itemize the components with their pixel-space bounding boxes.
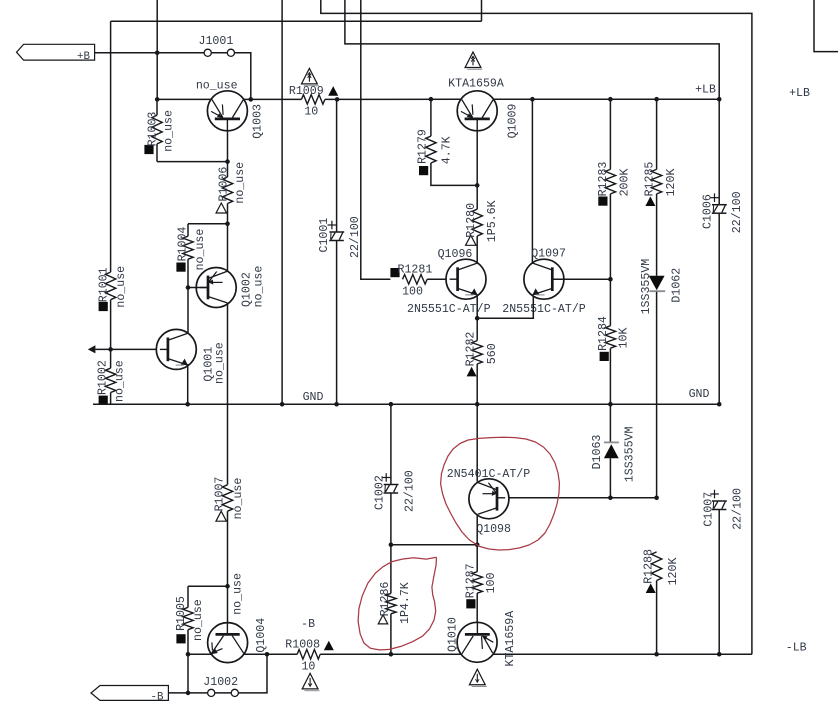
svg-text:R1283: R1283 bbox=[597, 162, 610, 197]
wire Q1098 collector bbox=[476, 404, 478, 481]
wire J1002 to node bbox=[238, 654, 267, 693]
wire Q1098 base net bbox=[497, 496, 659, 501]
svg-text:R1004: R1004 bbox=[177, 227, 190, 262]
resistor R1009 bbox=[289, 68, 338, 118]
svg-text:100: 100 bbox=[402, 285, 423, 298]
wire R1007 to Q1004 bbox=[225, 584, 230, 635]
node +LB label inner bbox=[695, 83, 716, 96]
svg-text:no_use: no_use bbox=[214, 342, 227, 384]
svg-text:GND: GND bbox=[303, 391, 324, 404]
jumper J1002 bbox=[203, 676, 238, 697]
svg-text:1SS355VM: 1SS355VM bbox=[623, 426, 636, 482]
wire Q1098 emitter bbox=[475, 515, 480, 572]
wire R1003 to Q1003 emitter bbox=[157, 159, 230, 164]
svg-text:R1003: R1003 bbox=[147, 112, 160, 147]
wire -LB rail bbox=[493, 652, 752, 657]
node +LB label outer bbox=[789, 87, 810, 100]
svg-text:no_use: no_use bbox=[114, 360, 127, 402]
svg-text:R1279: R1279 bbox=[416, 129, 429, 164]
diode D1062 bbox=[640, 259, 683, 315]
svg-text:no_use: no_use bbox=[232, 478, 245, 520]
svg-text:10K: 10K bbox=[617, 327, 630, 348]
wire D1062 to node bbox=[656, 292, 658, 498]
wire Q1097 base to node bbox=[552, 277, 612, 282]
label no_use Q1004 bbox=[231, 573, 244, 615]
svg-text:KTA1659A: KTA1659A bbox=[448, 77, 504, 90]
svg-text:C1007: C1007 bbox=[703, 492, 716, 527]
wire top-right corner bbox=[814, 0, 838, 52]
wire border vertical x282 bbox=[281, 0, 283, 404]
svg-text:-B: -B bbox=[151, 691, 164, 703]
resistor R1284 bbox=[597, 279, 630, 404]
wire Q1004 chord right bbox=[244, 652, 298, 657]
resistor R1279 bbox=[416, 99, 477, 185]
wire -LB feed top bbox=[321, 0, 752, 654]
svg-text:R1286: R1286 bbox=[379, 582, 392, 617]
svg-text:Q1097: Q1097 bbox=[531, 248, 566, 261]
transistor Q1001 bbox=[156, 329, 226, 384]
transistor Q1009 bbox=[448, 52, 519, 138]
svg-text:R1007: R1007 bbox=[213, 477, 226, 512]
capacitor C1001 bbox=[318, 99, 362, 404]
svg-text:no_use: no_use bbox=[194, 229, 207, 271]
svg-text:560: 560 bbox=[486, 343, 499, 364]
svg-text:C1006: C1006 bbox=[701, 194, 714, 229]
wire J1001 to Q1003 collector bbox=[235, 53, 254, 102]
resistor R1286 bbox=[378, 545, 412, 655]
svg-text:2N5551C-AT/P: 2N5551C-AT/P bbox=[407, 303, 491, 316]
svg-text:22/100: 22/100 bbox=[731, 191, 744, 233]
svg-text:22/100: 22/100 bbox=[349, 216, 362, 258]
transistor Q1004 bbox=[208, 618, 268, 663]
svg-text:R1285: R1285 bbox=[644, 162, 657, 197]
wire R1009 to +LB bbox=[325, 97, 461, 102]
svg-text:-B: -B bbox=[301, 618, 315, 631]
svg-text:120K: 120K bbox=[667, 558, 680, 586]
annotation red loop Q1098 bbox=[441, 437, 560, 550]
resistor R1282 bbox=[464, 332, 499, 405]
wire +LB feed top bbox=[345, 0, 719, 205]
svg-text:R1002: R1002 bbox=[97, 360, 110, 395]
wire Q1009 emitter bbox=[475, 131, 480, 209]
wire top stub to +B node bbox=[156, 0, 158, 99]
wire base rail Q1003 bbox=[155, 97, 211, 102]
svg-text:J1001: J1001 bbox=[199, 35, 234, 48]
svg-text:R1288: R1288 bbox=[643, 549, 656, 584]
wire C1002 to Q1098 emitter bbox=[389, 542, 478, 547]
svg-text:2N5551C-AT/P: 2N5551C-AT/P bbox=[502, 303, 586, 316]
svg-text:R1284: R1284 bbox=[597, 316, 610, 351]
node input arrow bbox=[88, 345, 96, 353]
transistor Q1002 bbox=[196, 266, 265, 308]
svg-text:Q1003: Q1003 bbox=[251, 104, 264, 139]
wire Q1001 emitter bbox=[187, 364, 189, 404]
svg-text:C1002: C1002 bbox=[374, 475, 387, 510]
connector -B bbox=[91, 686, 208, 704]
svg-text:R1282: R1282 bbox=[464, 332, 477, 367]
wire GND rail bbox=[93, 402, 722, 407]
svg-text:R1006: R1006 bbox=[217, 167, 230, 202]
diode D1063 bbox=[591, 404, 636, 498]
svg-text:1SS355VM: 1SS355VM bbox=[640, 259, 653, 315]
wire +LB rail bbox=[494, 97, 722, 102]
svg-text:GND: GND bbox=[689, 388, 710, 401]
resistor R1287 bbox=[464, 563, 498, 634]
svg-text:no_use: no_use bbox=[196, 79, 238, 92]
resistor R1006 bbox=[216, 162, 247, 224]
svg-text:no_use: no_use bbox=[234, 162, 247, 204]
svg-text:R1287: R1287 bbox=[464, 563, 477, 598]
wire input signal vertical x360 bbox=[361, 0, 391, 279]
svg-text:D1063: D1063 bbox=[591, 435, 604, 470]
svg-text:Q1096: Q1096 bbox=[438, 248, 473, 261]
svg-text:Q1010: Q1010 bbox=[447, 617, 460, 652]
wire +B to J1001 bbox=[155, 51, 204, 56]
svg-text:1P4.7K: 1P4.7K bbox=[399, 582, 412, 624]
svg-text:1P5.6K: 1P5.6K bbox=[486, 200, 499, 242]
svg-text:C1001: C1001 bbox=[318, 218, 331, 253]
resistor R1280 bbox=[465, 200, 499, 262]
wire Q1097 collector drop bbox=[531, 99, 533, 263]
svg-text:120K: 120K bbox=[665, 169, 678, 197]
node GND label left bbox=[303, 391, 324, 404]
resistor R1003 bbox=[144, 99, 175, 161]
transistor Q1096 bbox=[407, 248, 491, 316]
resistor R1008 bbox=[285, 618, 333, 691]
transistor Q1098 bbox=[447, 468, 531, 536]
svg-text:10: 10 bbox=[301, 661, 315, 674]
resistor R1002 bbox=[97, 349, 127, 404]
connector +B bbox=[17, 44, 158, 63]
wire Q1001 base bbox=[95, 347, 167, 352]
svg-text:100: 100 bbox=[485, 572, 498, 593]
svg-text:Q1098: Q1098 bbox=[476, 523, 511, 536]
transistor Q1010 bbox=[447, 611, 517, 687]
svg-text:R1008: R1008 bbox=[285, 638, 320, 651]
wire top stub x481 bbox=[481, 0, 483, 21]
svg-text:Q1004: Q1004 bbox=[255, 618, 268, 653]
svg-text:R1281: R1281 bbox=[398, 263, 433, 276]
svg-text:+LB: +LB bbox=[789, 87, 810, 100]
capacitor C1006 bbox=[701, 191, 743, 404]
jumper J1001 bbox=[199, 35, 235, 56]
node -LB label bbox=[786, 642, 807, 655]
wire R1008 to Q1010 bbox=[320, 652, 461, 657]
wire Q1003 emitter down bbox=[227, 131, 229, 177]
svg-text:R1005: R1005 bbox=[175, 596, 188, 631]
node GND label right bbox=[689, 388, 710, 401]
svg-text:no_use: no_use bbox=[231, 573, 244, 615]
wire Q1002 emitter to R1007 bbox=[227, 303, 229, 485]
svg-text:+LB: +LB bbox=[695, 83, 716, 96]
svg-text:R1280: R1280 bbox=[465, 203, 478, 238]
wire Q1096 emitter junction bbox=[475, 295, 480, 341]
wire Q1097 emitter bbox=[477, 296, 533, 318]
svg-text:R1009: R1009 bbox=[289, 85, 324, 98]
wire Q1001 collector bbox=[186, 285, 208, 333]
svg-text:KTA1659A: KTA1659A bbox=[504, 611, 517, 667]
resistor R1004 bbox=[176, 224, 227, 288]
resistor R1001 bbox=[98, 266, 128, 350]
svg-text:J1002: J1002 bbox=[203, 676, 238, 689]
svg-text:2N5401C-AT/P: 2N5401C-AT/P bbox=[447, 468, 531, 481]
svg-text:no_use: no_use bbox=[192, 599, 205, 641]
transistor Q1097 bbox=[502, 248, 586, 317]
svg-text:D1062: D1062 bbox=[670, 268, 683, 303]
wire Q1003 collector to R1009 bbox=[244, 98, 302, 100]
wire +B bus top-left horizontal bbox=[111, 20, 482, 22]
svg-text:no_use: no_use bbox=[115, 266, 128, 308]
svg-text:10: 10 bbox=[304, 106, 318, 119]
transistor Q1003 bbox=[196, 79, 265, 138]
wire left branch vertical to R1001 bbox=[110, 21, 112, 272]
resistor R1005 bbox=[175, 586, 228, 654]
svg-text:no_use: no_use bbox=[163, 110, 176, 152]
svg-text:+B: +B bbox=[77, 51, 90, 63]
wire -B drop bbox=[186, 654, 191, 695]
resistor R1281 bbox=[390, 263, 449, 298]
svg-text:Q1009: Q1009 bbox=[506, 104, 519, 139]
wire Q1004 chord left bbox=[186, 652, 212, 657]
resistor R1288 bbox=[643, 549, 680, 654]
wire R1006 to Q1002 collector bbox=[225, 222, 230, 271]
resistor R1285 bbox=[644, 99, 679, 276]
capacitor C1007 bbox=[703, 488, 745, 654]
svg-text:-LB: -LB bbox=[786, 642, 807, 655]
capacitor C1002 bbox=[374, 404, 417, 545]
annotation red loop R1286 bbox=[358, 557, 436, 650]
svg-text:no_use: no_use bbox=[252, 266, 265, 308]
svg-text:22/100: 22/100 bbox=[403, 470, 416, 512]
svg-text:4.7K: 4.7K bbox=[441, 136, 454, 164]
resistor R1283 bbox=[597, 99, 631, 279]
svg-text:200K: 200K bbox=[619, 169, 632, 197]
svg-text:R1001: R1001 bbox=[98, 267, 111, 302]
resistor R1007 bbox=[213, 477, 245, 587]
svg-text:22/100: 22/100 bbox=[731, 488, 744, 530]
